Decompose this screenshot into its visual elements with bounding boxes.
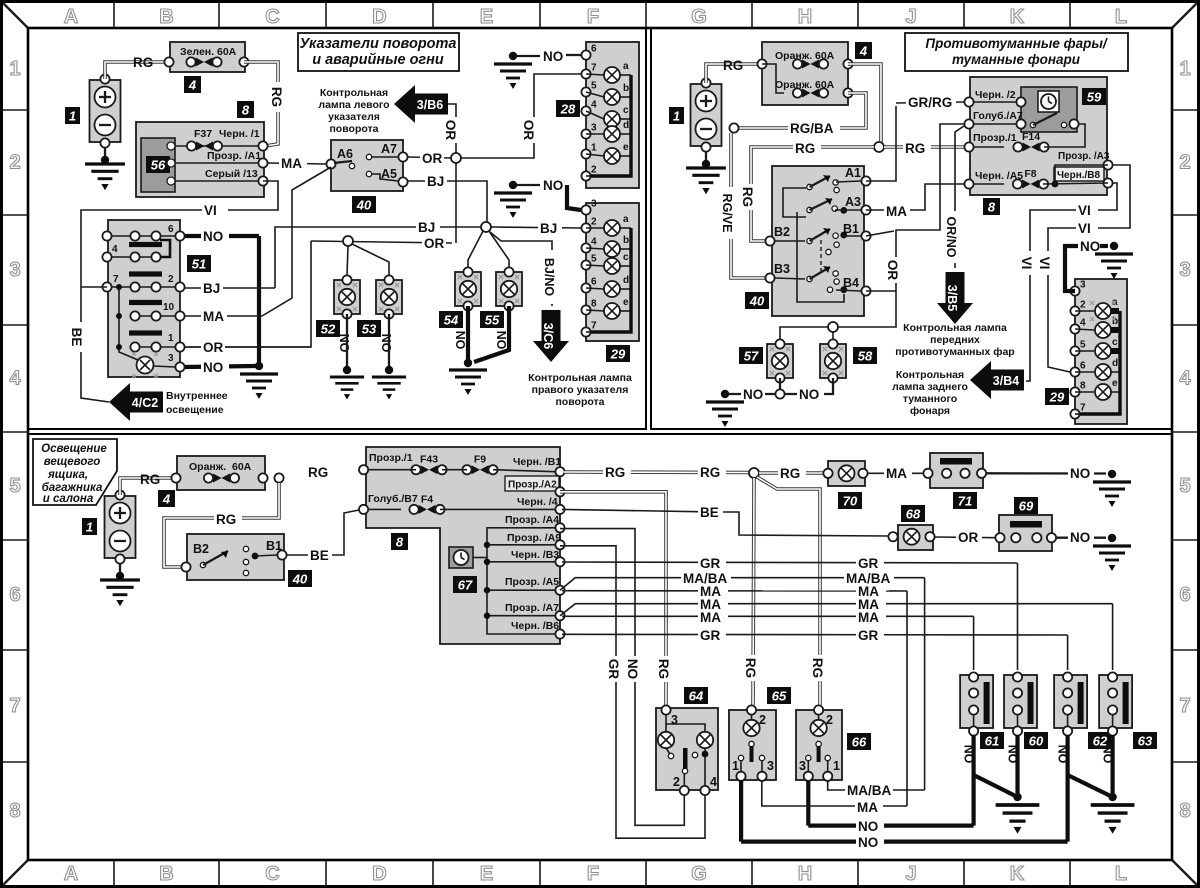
svg-text:BJ/NO: BJ/NO <box>542 258 556 296</box>
svg-text:Черн. /4: Черн. /4 <box>517 496 558 508</box>
svg-text:2: 2 <box>673 775 680 789</box>
svg-text:8: 8 <box>1080 381 1086 392</box>
svg-text:Прозр. /А5: Прозр. /А5 <box>505 576 559 588</box>
svg-text:противотуманных фар: противотуманных фар <box>895 346 1014 358</box>
svg-text:3: 3 <box>1080 280 1086 291</box>
svg-text:c: c <box>623 252 629 263</box>
svg-text:Контрольная лампа: Контрольная лампа <box>903 322 1007 334</box>
svg-text:ящика,: ящика, <box>47 469 88 481</box>
svg-text:Черн. /2: Черн. /2 <box>975 89 1016 101</box>
svg-text:освещение: освещение <box>166 404 224 416</box>
svg-text:3: 3 <box>671 713 678 727</box>
svg-text:5: 5 <box>591 254 597 265</box>
svg-text:4: 4 <box>710 775 717 789</box>
svg-text:NO: NO <box>625 659 640 679</box>
svg-text:RG: RG <box>133 55 153 70</box>
svg-text:OR/NO: OR/NO <box>944 217 958 258</box>
svg-text:10: 10 <box>163 302 175 313</box>
svg-text:C: C <box>265 6 279 28</box>
svg-text:VI: VI <box>1078 221 1091 236</box>
svg-text:BJ: BJ <box>203 281 220 296</box>
svg-text:66: 66 <box>852 735 867 750</box>
svg-text:GR: GR <box>606 659 621 680</box>
svg-text:1: 1 <box>673 109 680 124</box>
svg-text:GR: GR <box>700 556 721 571</box>
svg-text:3: 3 <box>9 259 20 281</box>
svg-text:63: 63 <box>1138 734 1153 749</box>
svg-text:RG: RG <box>810 658 825 678</box>
svg-text:NO: NO <box>1080 239 1100 254</box>
svg-text:Прозр. /А4: Прозр. /А4 <box>505 514 559 526</box>
svg-text:H: H <box>798 6 812 28</box>
svg-text:4: 4 <box>162 492 171 507</box>
svg-text:NO: NO <box>203 360 223 375</box>
svg-text:OR: OR <box>422 151 443 166</box>
svg-text:d: d <box>623 275 629 286</box>
svg-text:D: D <box>372 863 386 885</box>
svg-text:F: F <box>587 863 599 885</box>
svg-text:Черн./В8: Черн./В8 <box>1057 170 1101 181</box>
svg-text:и аварийные огни: и аварийные огни <box>312 52 444 68</box>
svg-text:d: d <box>623 120 629 131</box>
svg-text:RG: RG <box>723 58 743 73</box>
svg-text:Противотуманные фары/: Противотуманные фары/ <box>925 36 1108 51</box>
svg-text:указателя: указателя <box>328 111 380 123</box>
svg-text:C: C <box>265 863 279 885</box>
svg-text:1: 1 <box>1179 58 1190 80</box>
svg-text:вещевого: вещевого <box>44 456 100 468</box>
svg-text:e: e <box>623 297 629 308</box>
svg-text:b: b <box>623 83 629 94</box>
svg-text:4: 4 <box>1179 368 1191 390</box>
svg-text:RG/BA: RG/BA <box>790 121 834 136</box>
svg-text:4: 4 <box>188 78 197 93</box>
svg-text:NO: NO <box>543 49 563 64</box>
svg-text:67: 67 <box>458 578 473 593</box>
svg-text:MA: MA <box>858 610 879 625</box>
svg-text:MA/BA: MA/BA <box>847 783 891 798</box>
svg-text:7: 7 <box>9 695 20 717</box>
svg-text:туманного: туманного <box>903 393 957 405</box>
svg-text:NO: NO <box>379 334 393 353</box>
svg-text:55: 55 <box>485 313 500 328</box>
svg-text:туманные фонари: туманные фонари <box>952 52 1081 67</box>
svg-text:64: 64 <box>689 689 704 704</box>
svg-text:6: 6 <box>1179 584 1190 606</box>
svg-text:1: 1 <box>9 58 20 80</box>
svg-text:3: 3 <box>1179 259 1190 281</box>
svg-text:BJ: BJ <box>427 174 444 189</box>
svg-text:A3: A3 <box>845 195 861 209</box>
svg-text:VI: VI <box>1019 257 1034 270</box>
svg-text:RG: RG <box>269 87 284 107</box>
svg-text:MA: MA <box>700 610 721 625</box>
svg-text:Голуб./А7: Голуб./А7 <box>973 110 1023 122</box>
svg-text:Прозр./1: Прозр./1 <box>369 452 413 464</box>
svg-text:3: 3 <box>591 199 597 210</box>
svg-text:NO: NO <box>453 331 467 350</box>
svg-text:61: 61 <box>985 734 999 749</box>
svg-text:F14: F14 <box>1022 131 1040 143</box>
svg-text:и салона: и салона <box>43 493 94 505</box>
svg-text:F4: F4 <box>421 493 433 505</box>
svg-text:5: 5 <box>1179 475 1190 497</box>
svg-text:поворота: поворота <box>329 123 378 135</box>
svg-text:NO: NO <box>543 178 563 193</box>
svg-text:70: 70 <box>843 494 858 509</box>
svg-text:H: H <box>798 863 812 885</box>
svg-text:6: 6 <box>591 277 597 288</box>
svg-text:E: E <box>480 6 493 28</box>
svg-text:D: D <box>372 6 386 28</box>
svg-text:6: 6 <box>168 224 174 235</box>
svg-text:2: 2 <box>1179 152 1190 174</box>
svg-text:OR: OR <box>424 236 445 251</box>
svg-text:OR: OR <box>443 120 458 141</box>
svg-text:A: A <box>64 6 78 28</box>
svg-text:правого указателя: правого указателя <box>532 384 629 396</box>
svg-text:60А: 60А <box>217 46 237 58</box>
svg-text:Указатели поворота: Указатели поворота <box>299 36 456 52</box>
svg-text:Черн. /В6: Черн. /В6 <box>511 620 559 632</box>
svg-text:1: 1 <box>732 759 739 773</box>
svg-text:OR: OR <box>885 260 900 281</box>
svg-text:54: 54 <box>444 313 459 328</box>
svg-text:BE: BE <box>700 505 719 520</box>
svg-text:F37: F37 <box>194 128 212 140</box>
svg-text:RG: RG <box>700 465 720 480</box>
svg-text:6: 6 <box>9 584 20 606</box>
svg-text:BJ: BJ <box>540 221 557 236</box>
svg-text:8: 8 <box>591 299 597 310</box>
svg-text:3: 3 <box>168 353 174 364</box>
svg-text:Прозр. /А3: Прозр. /А3 <box>1058 151 1110 162</box>
svg-text:8: 8 <box>988 200 996 215</box>
svg-text:NO: NO <box>494 331 508 350</box>
svg-text:Прозр. /А1: Прозр. /А1 <box>207 150 261 162</box>
svg-text:Оранж.: Оранж. <box>189 461 226 473</box>
svg-text:8: 8 <box>396 535 404 550</box>
svg-text:c: c <box>623 105 629 116</box>
svg-text:6: 6 <box>591 44 597 55</box>
svg-text:Прозр. /А9: Прозр. /А9 <box>507 532 561 544</box>
svg-text:29: 29 <box>1049 390 1065 405</box>
svg-text:3: 3 <box>799 759 806 773</box>
svg-text:RG: RG <box>605 465 625 480</box>
svg-text:Черн. /1: Черн. /1 <box>219 128 260 140</box>
svg-text:2: 2 <box>1080 300 1086 311</box>
svg-text:Прозр. /А7: Прозр. /А7 <box>505 602 559 614</box>
svg-text:лампа левого: лампа левого <box>318 99 389 111</box>
svg-text:GR/RG: GR/RG <box>908 95 952 110</box>
svg-text:NO: NO <box>858 835 878 850</box>
svg-text:58: 58 <box>858 349 873 364</box>
svg-text:Черн. /В3: Черн. /В3 <box>511 549 559 561</box>
svg-text:F9: F9 <box>474 454 486 466</box>
svg-text:e: e <box>1112 378 1118 389</box>
svg-text:B3: B3 <box>774 262 790 276</box>
svg-text:Внутреннее: Внутреннее <box>166 390 228 402</box>
svg-text:60А: 60А <box>232 461 252 473</box>
svg-text:5: 5 <box>9 475 20 497</box>
svg-text:лампа заднего: лампа заднего <box>892 381 968 393</box>
svg-text:65: 65 <box>772 689 787 704</box>
svg-text:3: 3 <box>767 759 774 773</box>
svg-text:RG: RG <box>743 658 758 678</box>
svg-text:NO: NO <box>799 387 819 402</box>
svg-text:RG: RG <box>740 187 755 207</box>
svg-text:B2: B2 <box>774 225 790 239</box>
svg-text:2: 2 <box>591 165 597 176</box>
svg-text:5: 5 <box>591 81 597 92</box>
svg-text:4: 4 <box>9 368 21 390</box>
svg-text:RG: RG <box>905 141 925 156</box>
svg-text:c: c <box>1112 337 1118 348</box>
svg-text:BE: BE <box>69 328 84 347</box>
svg-text:RG: RG <box>216 512 236 527</box>
svg-text:B1: B1 <box>266 539 282 553</box>
svg-text:29: 29 <box>610 347 626 362</box>
svg-text:Контрольная: Контрольная <box>896 369 964 381</box>
svg-text:a: a <box>623 61 629 72</box>
svg-text:5: 5 <box>1080 340 1086 351</box>
svg-text:1: 1 <box>86 520 93 535</box>
svg-text:2: 2 <box>591 217 597 228</box>
svg-text:MA: MA <box>281 156 302 171</box>
svg-text:MA: MA <box>203 309 224 324</box>
svg-text:NO: NO <box>743 387 763 402</box>
svg-text:8: 8 <box>242 103 250 118</box>
svg-text:B2: B2 <box>193 542 209 556</box>
svg-text:NO: NO <box>1070 530 1090 545</box>
svg-text:NO: NO <box>337 334 351 353</box>
svg-text:VI: VI <box>1037 257 1052 270</box>
svg-text:7: 7 <box>113 274 119 285</box>
svg-text:51: 51 <box>192 257 206 272</box>
svg-text:NO: NO <box>203 229 223 244</box>
svg-text:e: e <box>623 142 629 153</box>
svg-text:b: b <box>623 235 629 246</box>
svg-text:3/B6: 3/B6 <box>417 98 443 112</box>
svg-text:RG: RG <box>308 465 328 480</box>
svg-text:Прозр./А2: Прозр./А2 <box>508 480 557 491</box>
svg-text:F8: F8 <box>1024 168 1036 180</box>
svg-text:4: 4 <box>591 237 597 248</box>
svg-text:7: 7 <box>591 321 597 332</box>
svg-text:A7: A7 <box>381 142 397 156</box>
svg-text:VI: VI <box>204 203 217 218</box>
svg-text:52: 52 <box>321 322 336 337</box>
svg-text:2: 2 <box>9 152 20 174</box>
svg-text:BE: BE <box>310 548 329 563</box>
svg-text:Прозр./1: Прозр./1 <box>973 132 1017 144</box>
svg-text:Освещение: Освещение <box>41 443 107 455</box>
svg-text:OR: OR <box>958 530 979 545</box>
svg-text:OR: OR <box>203 340 224 355</box>
svg-text:K: K <box>1010 6 1025 28</box>
svg-text:Контрольная: Контрольная <box>320 87 388 99</box>
svg-text:7: 7 <box>1179 695 1190 717</box>
svg-text:6: 6 <box>1080 361 1086 372</box>
svg-text:69: 69 <box>1019 499 1034 514</box>
svg-text:2: 2 <box>168 274 174 285</box>
svg-text:фонаря: фонаря <box>910 405 950 417</box>
svg-text:передних: передних <box>930 334 980 346</box>
svg-text:MA: MA <box>886 466 907 481</box>
svg-text:RG: RG <box>656 659 671 679</box>
svg-text:Черн. /В1: Черн. /В1 <box>513 456 561 468</box>
svg-text:4: 4 <box>859 44 868 59</box>
svg-text:3/С6: 3/С6 <box>541 323 555 349</box>
svg-text:7: 7 <box>591 63 597 74</box>
svg-text:1: 1 <box>168 333 174 344</box>
svg-text:L: L <box>1115 863 1127 885</box>
svg-text:4: 4 <box>1080 318 1086 329</box>
svg-text:60: 60 <box>1029 734 1044 749</box>
svg-text:53: 53 <box>362 322 377 337</box>
svg-text:4: 4 <box>591 100 597 111</box>
svg-text:L: L <box>1115 6 1127 28</box>
svg-text:A1: A1 <box>845 166 861 180</box>
svg-text:GR: GR <box>700 628 721 643</box>
svg-text:RG: RG <box>780 466 800 481</box>
svg-text:40: 40 <box>749 294 765 309</box>
svg-text:RG: RG <box>795 141 815 156</box>
svg-text:8: 8 <box>1179 800 1190 822</box>
svg-text:GR: GR <box>858 556 879 571</box>
svg-text:F43: F43 <box>420 454 438 466</box>
svg-text:1: 1 <box>69 109 76 124</box>
svg-text:3/В5: 3/В5 <box>945 285 959 311</box>
svg-text:Голуб./В7: Голуб./В7 <box>368 493 418 505</box>
svg-text:NO: NO <box>1070 466 1090 481</box>
svg-text:71: 71 <box>958 494 972 509</box>
svg-text:MA: MA <box>857 800 878 815</box>
svg-text:28: 28 <box>560 102 576 117</box>
svg-text:57: 57 <box>744 349 759 364</box>
svg-text:40: 40 <box>292 572 308 587</box>
svg-text:GR: GR <box>858 628 879 643</box>
svg-text:VI: VI <box>1078 203 1091 218</box>
svg-text:B: B <box>159 863 173 885</box>
svg-text:E: E <box>480 863 493 885</box>
svg-text:a: a <box>623 214 629 225</box>
svg-text:Контрольная лампа: Контрольная лампа <box>528 372 632 384</box>
svg-text:G: G <box>691 863 707 885</box>
svg-text:d: d <box>1112 358 1118 369</box>
svg-text:A: A <box>64 863 78 885</box>
svg-text:OR: OR <box>521 120 536 141</box>
svg-text:K: K <box>1010 863 1025 885</box>
svg-text:4: 4 <box>112 244 118 255</box>
svg-text:BJ: BJ <box>418 220 435 235</box>
svg-text:MA: MA <box>886 204 907 219</box>
svg-text:59: 59 <box>1087 90 1102 105</box>
svg-text:4/C2: 4/C2 <box>132 396 158 410</box>
svg-text:40: 40 <box>356 198 372 213</box>
svg-text:RG: RG <box>140 472 160 487</box>
svg-text:RG/VE: RG/VE <box>720 194 734 233</box>
svg-text:3: 3 <box>591 123 597 134</box>
svg-text:56: 56 <box>151 158 166 173</box>
svg-text:1: 1 <box>833 759 840 773</box>
svg-text:7: 7 <box>1080 403 1086 414</box>
svg-text:F: F <box>587 6 599 28</box>
svg-text:Серый /13: Серый /13 <box>205 168 258 180</box>
svg-text:Зелен.: Зелен. <box>180 46 214 58</box>
svg-text:поворота: поворота <box>555 396 604 408</box>
svg-text:NO: NO <box>858 819 878 834</box>
svg-text:68: 68 <box>906 507 921 522</box>
svg-text:J: J <box>905 863 916 885</box>
svg-text:3/В4: 3/В4 <box>993 374 1019 388</box>
svg-text:J: J <box>905 6 916 28</box>
svg-text:A6: A6 <box>337 147 353 161</box>
svg-text:B: B <box>159 6 173 28</box>
svg-text:1: 1 <box>591 143 597 154</box>
svg-text:8: 8 <box>9 800 20 822</box>
svg-text:G: G <box>691 6 707 28</box>
